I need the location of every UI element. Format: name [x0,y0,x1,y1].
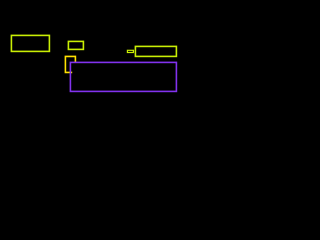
box B5 yellow rectangle (partially occluded) [65,56,75,72]
box B4 top-right chartreuse rectangle [135,46,176,56]
box B3 tiny chartreuse dash rectangle [127,50,133,52]
box B2 small chartreuse rectangle [68,41,83,49]
box B1 top-left chartreuse rectangle [11,35,49,51]
box B6 large purple rectangle [70,62,176,91]
